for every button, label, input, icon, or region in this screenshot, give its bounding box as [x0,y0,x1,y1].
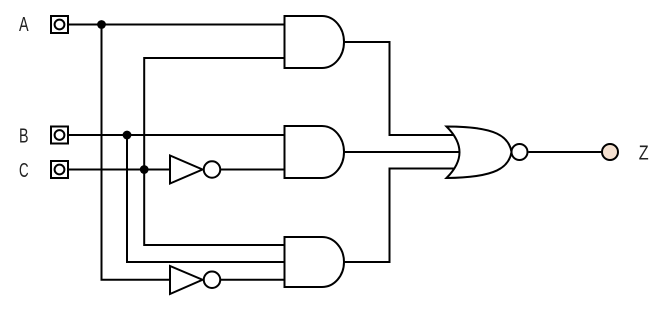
svg-text:Z: Z [639,142,649,164]
svg-text:A: A [19,14,29,36]
svg-text:B: B [19,125,29,147]
svg-text:C: C [19,160,29,182]
